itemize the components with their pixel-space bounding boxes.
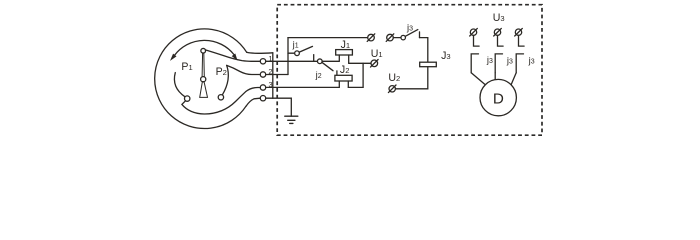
wire J1 to U1	[349, 62, 371, 64]
terminal 1 circle	[260, 59, 265, 64]
contact j1 pivot	[295, 51, 300, 56]
main contact j3 phase B lower	[495, 54, 502, 73]
svg-text:j3: j3	[406, 23, 413, 34]
main contact j3 phase C upper	[519, 35, 525, 46]
motor lead phase C	[511, 73, 516, 85]
J1 right pin	[348, 55, 350, 63]
contact j1 stub	[288, 52, 295, 54]
svg-text:P1: P1	[181, 61, 192, 73]
svg-text:1: 1	[268, 54, 272, 63]
contact j2 fixed tick	[336, 71, 338, 75]
terminal 2 circle	[260, 72, 265, 77]
connector terminal left	[368, 34, 375, 41]
main contact j3 phase A upper	[474, 35, 480, 46]
supply terminal phase A	[470, 29, 476, 35]
J2 left pin	[338, 81, 340, 87]
main contact j3 phase C lower	[516, 54, 523, 73]
contact j2 pivot	[317, 59, 322, 64]
svg-text:j3: j3	[486, 55, 493, 66]
ground symbol	[285, 116, 298, 123]
arrow arc left arrowhead	[170, 54, 177, 61]
main contact j3 phase A lower	[471, 54, 478, 73]
contact j3 fixed tick	[419, 32, 421, 38]
motor D circle	[480, 79, 516, 115]
gauge terminal wall	[272, 53, 274, 99]
wire 4 to ground	[266, 98, 292, 116]
dashed enclosure (control cabinet)	[277, 5, 542, 136]
wire j3 to coil J3	[420, 38, 428, 63]
needle swing arrow arc	[175, 40, 234, 55]
main contact j3 phase B upper	[498, 35, 504, 46]
svg-text:U2: U2	[388, 72, 400, 84]
svg-text:J2: J2	[340, 64, 350, 76]
J2 right pin	[347, 81, 349, 87]
wire J2 to junction	[348, 86, 363, 88]
gauge throat top line	[247, 51, 273, 54]
terminal U2	[389, 86, 395, 92]
connector terminal right	[387, 34, 394, 41]
top supply rail	[288, 37, 368, 39]
svg-text:P2: P2	[216, 66, 227, 78]
motor lead phase B	[494, 73, 496, 80]
needle stem	[202, 53, 204, 77]
svg-text:j2: j2	[315, 70, 322, 81]
terminal 4 (case) circle	[260, 96, 265, 101]
svg-text:j1: j1	[292, 40, 299, 51]
P2 setpoint arm arc	[222, 65, 228, 95]
contact j3 pivot	[401, 35, 406, 40]
contact j3 blade	[405, 30, 418, 37]
needle tip contact circle	[201, 48, 206, 53]
svg-text:2: 2	[268, 67, 272, 76]
wire j2 to relay J1	[322, 60, 339, 62]
contactor coil J3	[420, 62, 437, 66]
contact j1 blade	[299, 46, 312, 52]
needle tail wedge	[200, 82, 208, 98]
terminal U1	[371, 60, 378, 67]
wire 2 into cabinet	[266, 74, 288, 76]
pressure gauge outer case	[155, 29, 247, 129]
wire 3 into cabinet	[266, 86, 340, 88]
relay coil J2	[335, 75, 352, 81]
P2 contact circle	[218, 95, 223, 100]
gauge throat bottom line	[246, 98, 260, 106]
wire to contact j3	[393, 37, 401, 39]
wire: needle tip to terminal 1	[205, 50, 260, 61]
svg-text:3: 3	[268, 80, 272, 89]
P1 setpoint arm arc	[174, 73, 185, 97]
svg-text:U1: U1	[371, 48, 383, 60]
motor lead phase A	[471, 73, 485, 85]
svg-text:D: D	[493, 90, 504, 107]
relay coil J1	[336, 50, 353, 55]
supply terminal phase C	[515, 29, 521, 35]
wire: P1 arm bottom sweep to terminal 3	[182, 88, 260, 115]
wire 1 into cabinet	[266, 60, 318, 62]
svg-text:J3: J3	[441, 50, 451, 62]
P1 contact circle	[185, 96, 190, 101]
wire J3 to U2	[395, 67, 427, 89]
supply terminal phase B	[494, 29, 500, 35]
wire: P2 arm to terminal 2	[227, 65, 261, 74]
svg-text:J1: J1	[341, 39, 351, 51]
svg-text:j3: j3	[506, 55, 513, 66]
svg-text:j3: j3	[528, 55, 535, 66]
left supply bus	[287, 38, 289, 75]
arrow arc right arrowhead	[232, 54, 238, 61]
J1 left pin	[338, 55, 340, 61]
contact j2 blade	[322, 62, 333, 70]
needle hub	[201, 77, 206, 82]
junction drop to wire 3	[362, 63, 364, 87]
contact j1 fixed tick	[313, 55, 315, 62]
svg-text:U3: U3	[493, 12, 505, 24]
terminal 3 circle	[260, 85, 265, 90]
